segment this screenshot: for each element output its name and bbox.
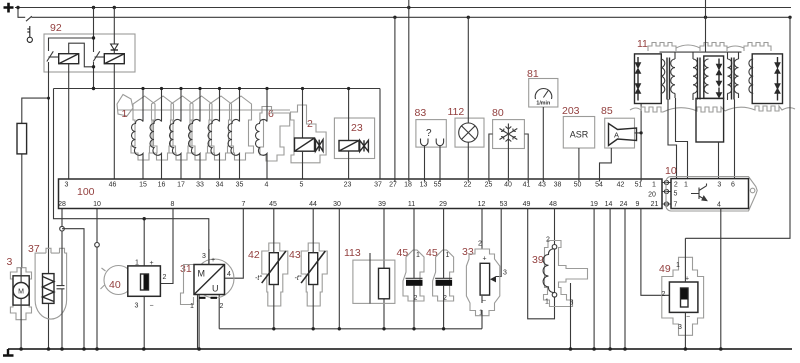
svg-text:12: 12 xyxy=(478,201,486,208)
svg-text:43: 43 xyxy=(289,249,301,261)
svg-text:4: 4 xyxy=(227,271,231,278)
svg-text:1: 1 xyxy=(190,303,194,310)
svg-text:49: 49 xyxy=(659,263,671,275)
svg-text:19: 19 xyxy=(590,201,598,208)
svg-text:3: 3 xyxy=(678,324,682,331)
svg-text:ASR: ASR xyxy=(570,130,589,140)
svg-text:42: 42 xyxy=(248,249,260,261)
svg-text:85: 85 xyxy=(601,105,613,117)
svg-text:−: − xyxy=(482,298,486,305)
svg-text:14: 14 xyxy=(605,201,613,208)
svg-text:4: 4 xyxy=(265,182,269,189)
svg-text:U: U xyxy=(212,284,219,294)
svg-text:11: 11 xyxy=(637,38,648,50)
svg-text:203: 203 xyxy=(562,105,580,117)
svg-text:2: 2 xyxy=(546,237,550,244)
svg-text:1: 1 xyxy=(684,182,688,189)
svg-text:83: 83 xyxy=(415,107,427,119)
svg-text:80: 80 xyxy=(492,107,504,119)
svg-text:8: 8 xyxy=(171,201,175,208)
svg-text:28: 28 xyxy=(58,201,66,208)
svg-text:M: M xyxy=(18,289,24,296)
svg-text:7: 7 xyxy=(674,202,678,209)
svg-text:−: − xyxy=(149,303,153,310)
svg-text:30: 30 xyxy=(333,201,341,208)
svg-text:37: 37 xyxy=(374,182,382,189)
svg-text:11: 11 xyxy=(408,201,415,208)
svg-text:3: 3 xyxy=(503,270,507,277)
svg-text:49: 49 xyxy=(523,201,531,208)
svg-text:-t°: -t° xyxy=(255,274,262,282)
svg-text:23: 23 xyxy=(344,182,352,189)
svg-text:22: 22 xyxy=(464,182,472,189)
svg-text:1/min: 1/min xyxy=(536,101,550,107)
svg-text:54: 54 xyxy=(595,182,603,189)
svg-text:1: 1 xyxy=(122,108,128,120)
svg-text:3: 3 xyxy=(65,182,69,189)
svg-text:-t°: -t° xyxy=(295,274,302,282)
svg-text:24: 24 xyxy=(620,201,628,208)
svg-text:27: 27 xyxy=(389,182,397,189)
svg-text:42: 42 xyxy=(617,182,625,189)
svg-text:20: 20 xyxy=(648,191,656,198)
svg-text:3: 3 xyxy=(7,256,13,268)
svg-text:1: 1 xyxy=(545,299,549,306)
svg-text:M: M xyxy=(198,269,206,279)
svg-text:5: 5 xyxy=(674,191,678,198)
svg-text:2: 2 xyxy=(163,274,167,281)
svg-text:48: 48 xyxy=(549,201,557,208)
svg-text:2: 2 xyxy=(220,303,224,310)
svg-text:5: 5 xyxy=(300,182,304,189)
svg-text:51: 51 xyxy=(635,182,643,189)
svg-text:53: 53 xyxy=(500,201,508,208)
svg-text:23: 23 xyxy=(351,122,363,134)
svg-text:2: 2 xyxy=(674,182,678,189)
svg-text:35: 35 xyxy=(236,182,244,189)
svg-text:15: 15 xyxy=(139,182,147,189)
svg-text:43: 43 xyxy=(538,182,546,189)
svg-text:21: 21 xyxy=(651,201,659,208)
svg-text:13: 13 xyxy=(420,182,428,189)
svg-text:3: 3 xyxy=(202,253,206,260)
svg-text:6: 6 xyxy=(731,182,735,189)
svg-text:?: ? xyxy=(426,128,432,139)
svg-text:46: 46 xyxy=(109,182,117,189)
svg-text:25: 25 xyxy=(485,182,493,189)
svg-text:A: A xyxy=(614,131,619,140)
svg-text:1: 1 xyxy=(135,260,139,267)
svg-text:+: + xyxy=(149,260,153,267)
svg-text:+: + xyxy=(483,256,487,263)
svg-text:100: 100 xyxy=(77,186,95,198)
svg-text:113: 113 xyxy=(344,247,361,259)
svg-text:3: 3 xyxy=(717,182,721,189)
svg-text:18: 18 xyxy=(404,182,412,189)
svg-text:92: 92 xyxy=(50,22,62,34)
svg-text:4: 4 xyxy=(717,202,721,209)
svg-text:1: 1 xyxy=(676,262,680,269)
svg-text:38: 38 xyxy=(554,182,562,189)
svg-text:7: 7 xyxy=(242,201,246,208)
svg-text:44: 44 xyxy=(309,201,317,208)
svg-text:45: 45 xyxy=(269,201,277,208)
svg-text:112: 112 xyxy=(448,106,465,118)
svg-text:39: 39 xyxy=(532,254,544,266)
svg-text:10: 10 xyxy=(93,201,101,208)
svg-text:50: 50 xyxy=(574,182,582,189)
svg-text:33: 33 xyxy=(462,246,474,258)
svg-text:1: 1 xyxy=(479,310,483,317)
svg-text:29: 29 xyxy=(439,201,447,208)
svg-text:−: − xyxy=(686,314,690,321)
svg-text:16: 16 xyxy=(158,182,166,189)
svg-text:1: 1 xyxy=(652,182,656,189)
svg-text:2: 2 xyxy=(478,241,482,248)
svg-text:33: 33 xyxy=(196,182,204,189)
svg-text:+: + xyxy=(211,257,215,264)
svg-text:40: 40 xyxy=(109,279,121,291)
svg-text:39: 39 xyxy=(378,201,386,208)
svg-text:34: 34 xyxy=(216,182,224,189)
svg-text:55: 55 xyxy=(434,182,442,189)
svg-text:40: 40 xyxy=(504,182,512,189)
svg-text:2: 2 xyxy=(662,291,666,298)
svg-text:41: 41 xyxy=(523,182,531,189)
svg-text:3: 3 xyxy=(135,303,139,310)
svg-text:9: 9 xyxy=(636,201,640,208)
svg-text:10: 10 xyxy=(665,165,677,177)
svg-text:17: 17 xyxy=(177,182,185,189)
